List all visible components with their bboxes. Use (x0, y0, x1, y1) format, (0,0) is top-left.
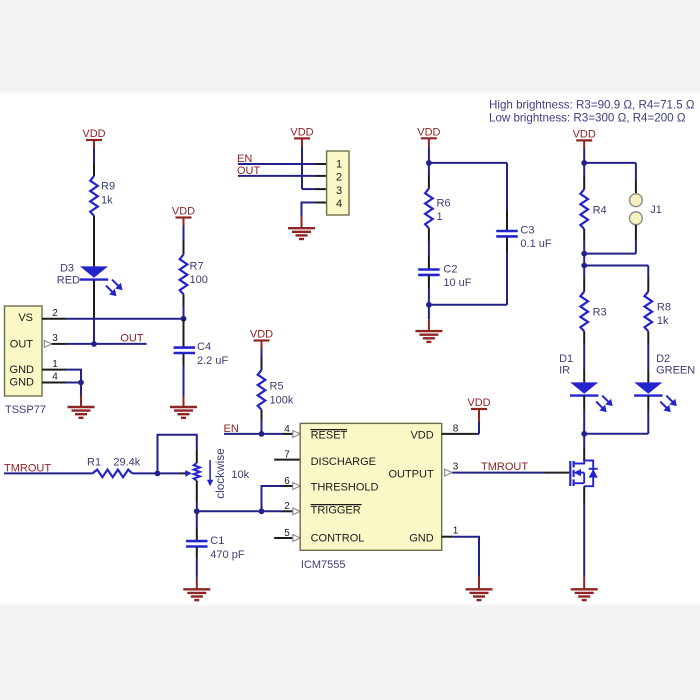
svg-text:100: 100 (190, 274, 208, 286)
svg-text:3: 3 (336, 185, 342, 197)
svg-text:DISCHARGE: DISCHARGE (311, 456, 376, 468)
svg-text:GND: GND (10, 364, 35, 376)
svg-text:OUT: OUT (10, 338, 34, 350)
svg-text:C4: C4 (197, 341, 211, 353)
svg-text:D1: D1 (559, 353, 573, 365)
svg-text:GND: GND (409, 532, 434, 544)
svg-text:R6: R6 (437, 198, 451, 210)
svg-text:VDD: VDD (410, 429, 433, 441)
svg-text:4: 4 (336, 198, 342, 210)
svg-text:5: 5 (284, 528, 290, 539)
svg-text:10 uF: 10 uF (443, 277, 471, 289)
svg-text:0.1 uF: 0.1 uF (520, 238, 551, 250)
svg-text:J1: J1 (650, 204, 662, 216)
svg-text:2: 2 (336, 172, 342, 184)
svg-text:6: 6 (284, 476, 290, 487)
svg-text:GND: GND (10, 377, 35, 389)
svg-text:TRIGGER: TRIGGER (311, 504, 361, 516)
svg-text:OUT: OUT (120, 333, 144, 345)
svg-text:R4: R4 (593, 205, 607, 217)
svg-text:100k: 100k (270, 395, 294, 407)
svg-text:TSSP77: TSSP77 (5, 404, 46, 416)
svg-text:10k: 10k (231, 469, 249, 481)
svg-text:1k: 1k (657, 315, 669, 327)
svg-text:CONTROL: CONTROL (311, 532, 365, 544)
svg-text:7: 7 (284, 450, 290, 461)
svg-text:C1: C1 (210, 535, 224, 547)
svg-text:1: 1 (52, 359, 58, 370)
svg-text:R9: R9 (101, 181, 115, 193)
svg-text:ICM7555: ICM7555 (301, 559, 346, 571)
svg-text:C3: C3 (520, 225, 534, 237)
svg-text:D2: D2 (656, 353, 670, 365)
svg-text:2: 2 (52, 308, 58, 319)
svg-text:8: 8 (453, 423, 459, 434)
svg-text:High brightness: R3=90.9 Ω, R4: High brightness: R3=90.9 Ω, R4=71.5 Ω (489, 98, 695, 111)
svg-text:OUTPUT: OUTPUT (388, 468, 434, 480)
svg-text:VS: VS (18, 312, 33, 324)
svg-text:4: 4 (52, 372, 58, 383)
svg-text:2: 2 (284, 501, 290, 512)
svg-text:3: 3 (52, 333, 58, 344)
svg-text:VDD: VDD (290, 127, 313, 139)
svg-text:C2: C2 (443, 264, 457, 276)
svg-text:TMROUT: TMROUT (481, 461, 528, 473)
svg-text:2.2 uF: 2.2 uF (197, 355, 228, 367)
svg-text:1k: 1k (101, 195, 113, 207)
svg-text:1: 1 (453, 525, 459, 536)
svg-text:470 pF: 470 pF (210, 549, 245, 561)
svg-text:VDD: VDD (573, 129, 596, 141)
svg-text:R8: R8 (657, 302, 671, 314)
svg-text:R1: R1 (87, 456, 101, 468)
svg-text:1: 1 (336, 159, 342, 171)
svg-text:4: 4 (284, 424, 290, 435)
svg-text:R5: R5 (270, 381, 284, 393)
svg-text:clockwise: clockwise (213, 448, 227, 499)
svg-text:THRESHOLD: THRESHOLD (311, 482, 379, 494)
svg-text:RED: RED (57, 275, 80, 287)
svg-text:29.4k: 29.4k (113, 456, 140, 468)
svg-text:R3: R3 (593, 307, 607, 319)
svg-text:D3: D3 (60, 263, 74, 275)
svg-text:VDD: VDD (417, 127, 440, 139)
svg-text:EN: EN (237, 153, 252, 165)
svg-text:VDD: VDD (172, 206, 195, 218)
svg-text:GREEN: GREEN (656, 365, 695, 377)
svg-text:VDD: VDD (467, 397, 490, 409)
svg-text:3: 3 (453, 461, 459, 472)
svg-text:VDD: VDD (250, 329, 273, 341)
svg-text:IR: IR (559, 365, 570, 377)
svg-text:VDD: VDD (82, 128, 105, 140)
svg-text:RESET: RESET (311, 429, 348, 441)
svg-text:Low brightness: R3=300 Ω, R4=2: Low brightness: R3=300 Ω, R4=200 Ω (489, 112, 686, 125)
svg-text:OUT: OUT (237, 165, 261, 177)
svg-text:1: 1 (437, 211, 443, 223)
svg-text:R7: R7 (190, 261, 204, 273)
